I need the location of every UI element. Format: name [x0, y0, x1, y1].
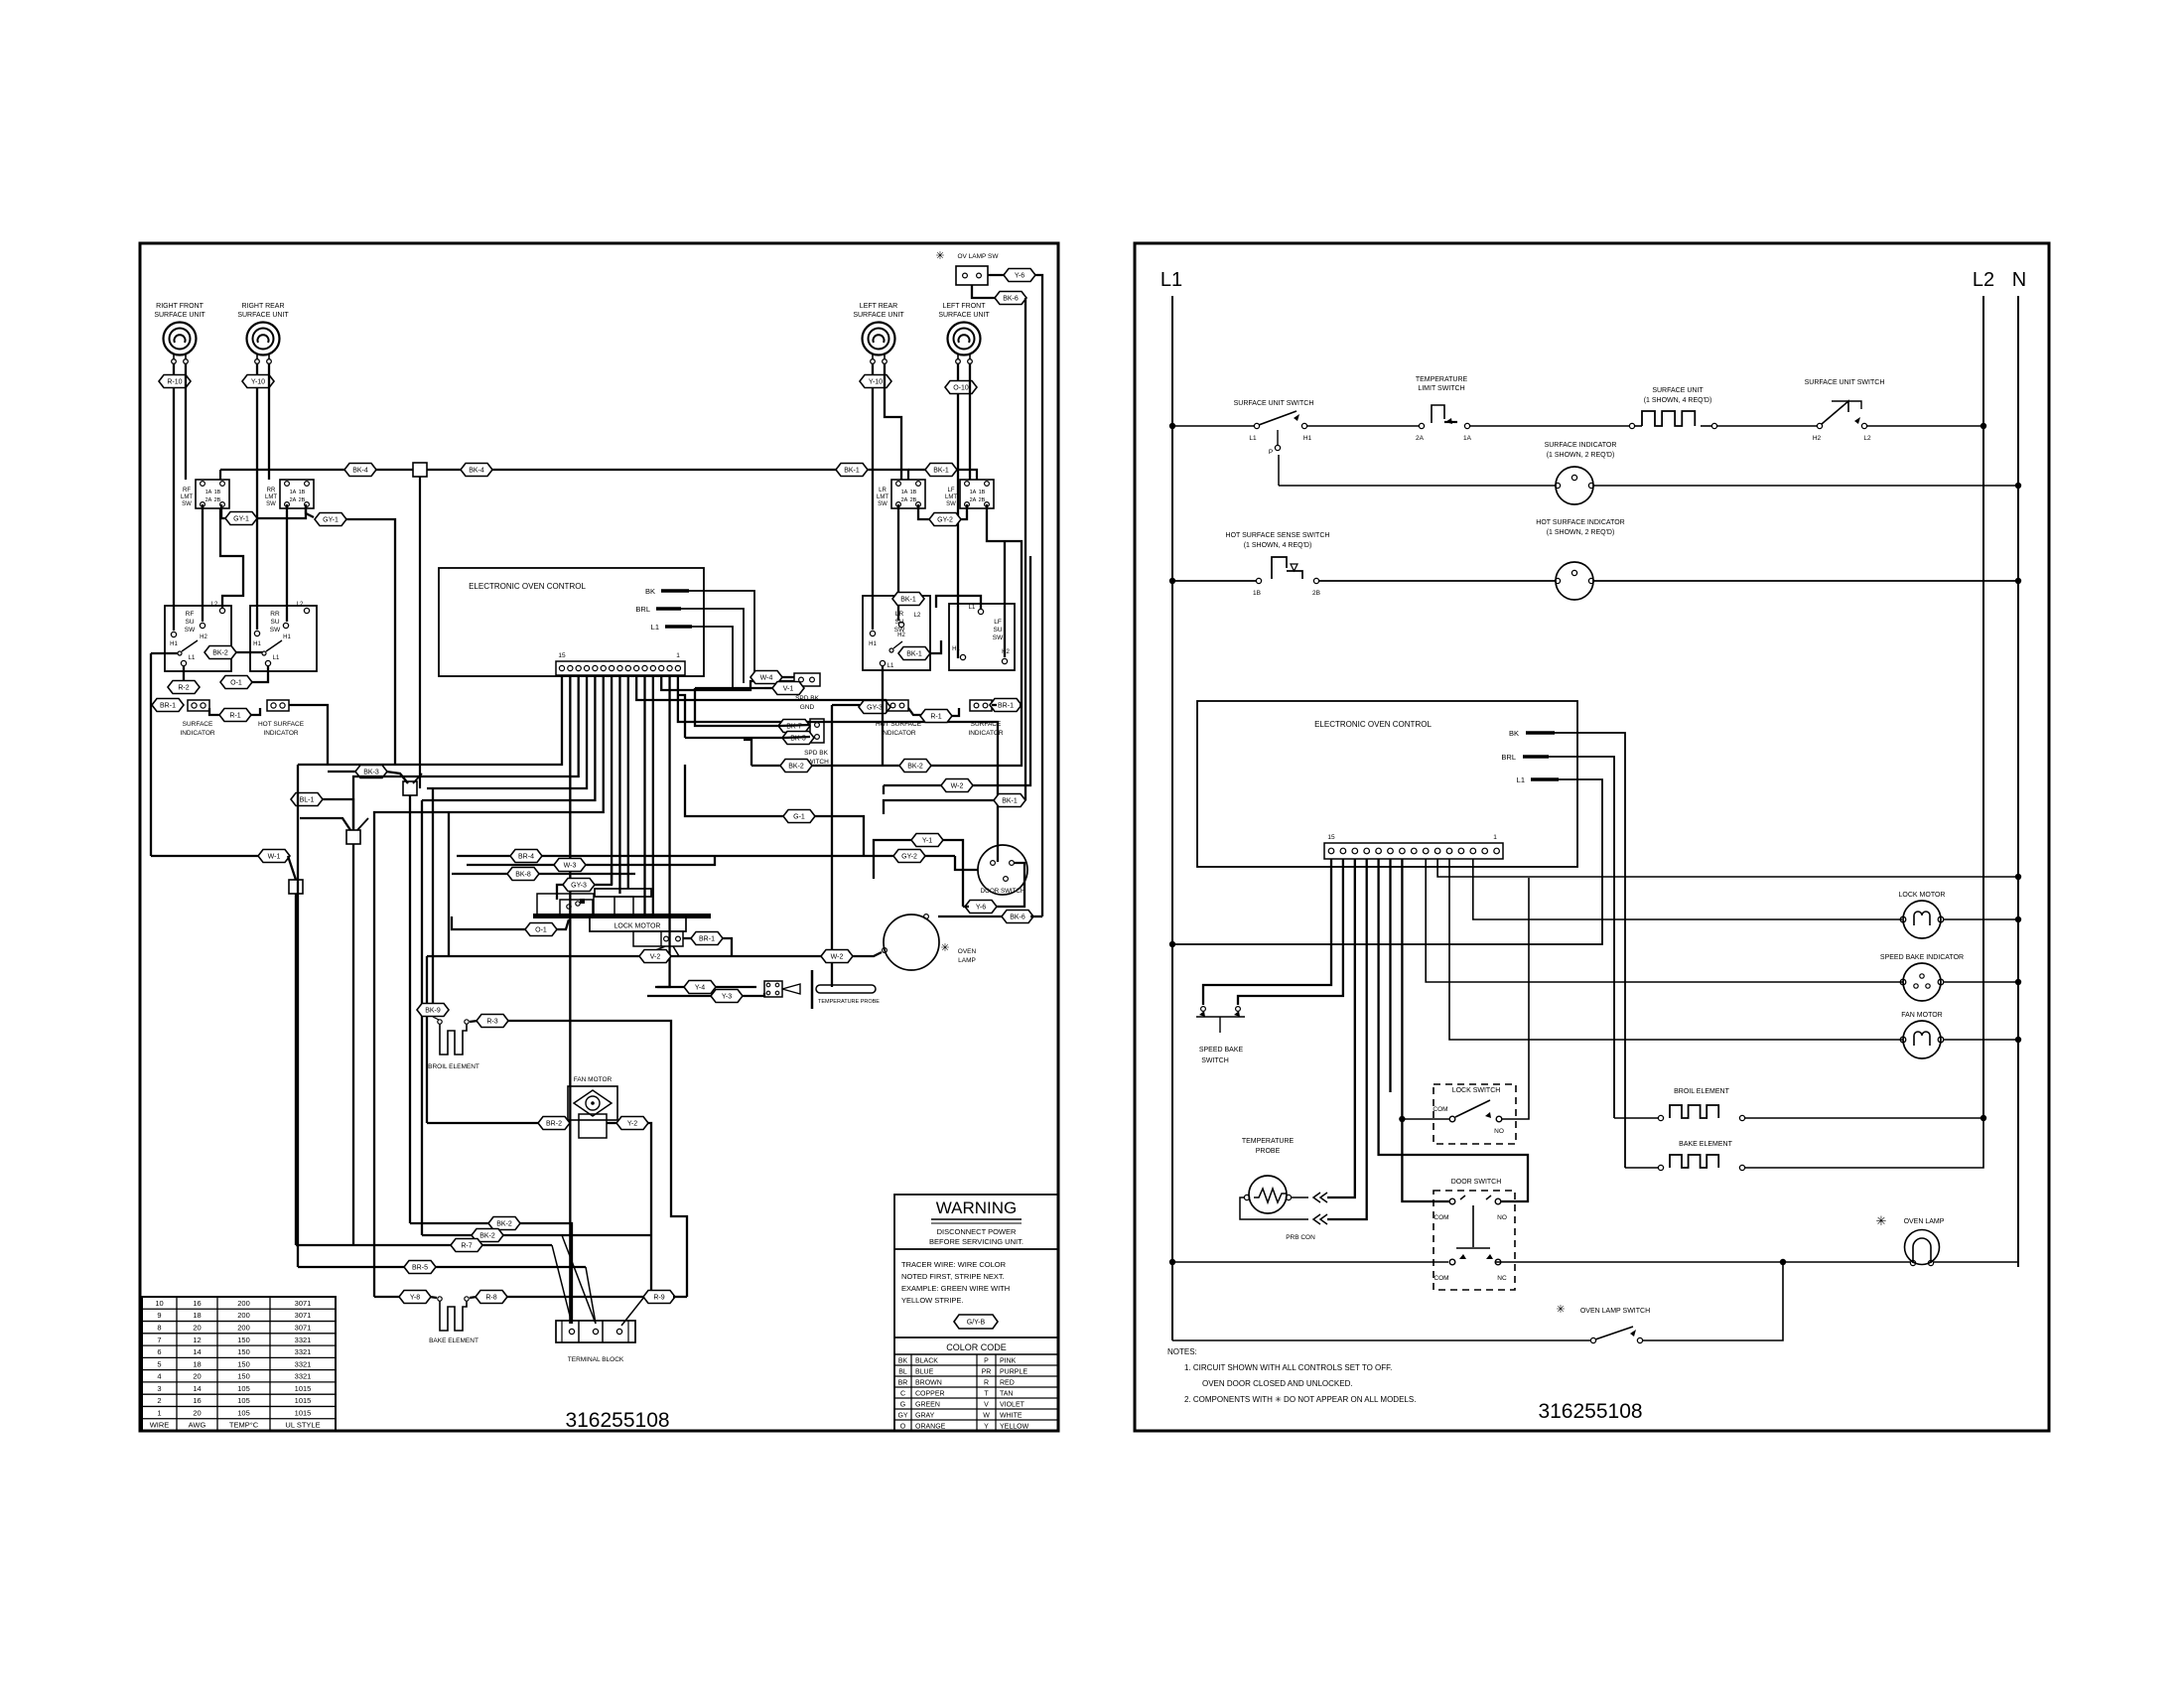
- svg-text:COM: COM: [1433, 1214, 1448, 1221]
- svg-text:BK-3: BK-3: [363, 770, 379, 776]
- wire LF H2 feed: [1004, 541, 1006, 657]
- door switch right: [1433, 1191, 1515, 1290]
- svg-text:H2: H2: [1002, 649, 1010, 655]
- svg-text:105: 105: [237, 1384, 250, 1393]
- wires BK BRL L1 to right: [689, 591, 754, 675]
- svg-text:WIRE: WIRE: [150, 1421, 170, 1430]
- svg-text:YELLOW STRIPE.: YELLOW STRIPE.: [901, 1296, 964, 1305]
- svg-text:INDICATOR: INDICATOR: [968, 730, 1003, 737]
- svg-text:SU: SU: [185, 619, 194, 626]
- temperature probe: [684, 981, 716, 994]
- svg-text:2A: 2A: [1416, 435, 1425, 442]
- svg-text:SPEED BAKE INDICATOR: SPEED BAKE INDICATOR: [1880, 954, 1964, 961]
- svg-text:1: 1: [157, 1408, 161, 1417]
- svg-text:BLUE: BLUE: [915, 1368, 934, 1375]
- svg-text:G/Y-B: G/Y-B: [967, 1320, 986, 1327]
- svg-text:R-1: R-1: [930, 714, 941, 721]
- svg-text:200: 200: [237, 1323, 250, 1332]
- wire pin5 down to bar: [643, 675, 645, 915]
- svg-text:1A: 1A: [205, 490, 212, 495]
- svg-text:BK-6: BK-6: [1010, 915, 1025, 921]
- svg-text:RIGHT FRONT: RIGHT FRONT: [156, 303, 204, 310]
- lock motor small box: [633, 931, 683, 946]
- svg-text:H2: H2: [200, 634, 207, 640]
- svg-text:BK-1: BK-1: [900, 597, 916, 604]
- svg-text:LEFT FRONT: LEFT FRONT: [942, 303, 986, 310]
- wire R-1 right: [908, 708, 921, 715]
- lock small box diagonals: [641, 946, 665, 956]
- svg-text:RR: RR: [270, 611, 280, 618]
- svg-text:20: 20: [193, 1372, 201, 1381]
- svg-text:TEMPERATURE: TEMPERATURE: [1416, 376, 1468, 383]
- svg-text:1B: 1B: [979, 490, 986, 495]
- svg-text:1A: 1A: [970, 490, 977, 495]
- electronic oven control box: [439, 568, 704, 676]
- svg-text:O-10: O-10: [953, 385, 969, 392]
- svg-text:1B: 1B: [910, 490, 917, 495]
- svg-text:SW: SW: [182, 501, 192, 507]
- svg-text:BK-4: BK-4: [469, 468, 484, 475]
- svg-text:P: P: [1269, 449, 1273, 456]
- svg-text:2A: 2A: [205, 497, 212, 503]
- svg-text:BL: BL: [898, 1368, 907, 1375]
- svg-text:BR-1: BR-1: [699, 936, 715, 943]
- svg-text:BK-2: BK-2: [496, 1221, 512, 1228]
- wire LF LMT to right riser: [987, 504, 1022, 556]
- wire pin15 left to x300: [298, 675, 562, 765]
- svg-text:2. COMPONENTS WITH ✳ DO NO: 2. COMPONENTS WITH ✳ DO NOT APPEAR ON AL…: [1184, 1395, 1416, 1404]
- svg-text:GY: GY: [897, 1412, 907, 1419]
- svg-text:✳: ✳: [940, 942, 949, 954]
- svg-text:O-1: O-1: [230, 680, 242, 687]
- ovals above lock motor: [510, 850, 542, 863]
- svg-text:BK-1: BK-1: [906, 651, 922, 658]
- svg-text:2B: 2B: [1312, 590, 1320, 597]
- svg-text:3321: 3321: [295, 1347, 312, 1356]
- svg-text:316255108: 316255108: [1538, 1400, 1642, 1423]
- svg-text:BLACK: BLACK: [915, 1357, 938, 1364]
- svg-text:LR: LR: [879, 488, 887, 493]
- svg-text:VIOLET: VIOLET: [1000, 1401, 1025, 1408]
- wire LB coil right down to LR LMT SW: [885, 363, 901, 480]
- left panel border: [140, 243, 1058, 1431]
- svg-text:TEMP°C: TEMP°C: [229, 1421, 259, 1430]
- svg-text:SW: SW: [185, 627, 196, 633]
- wire ov lamp sw to right: [988, 274, 1005, 276]
- wire BK row 2: [994, 794, 1025, 807]
- svg-text:Y-1: Y-1: [922, 838, 932, 845]
- svg-text:HOT SURFACE: HOT SURFACE: [258, 721, 305, 728]
- wire table: [142, 1297, 336, 1431]
- svg-text:3321: 3321: [295, 1336, 312, 1344]
- svg-text:V-1: V-1: [783, 686, 794, 693]
- switch box LR SU SW: [863, 596, 930, 670]
- wire LF coil down: [957, 363, 959, 658]
- svg-text:DOOR SWITCH: DOOR SWITCH: [981, 888, 1025, 895]
- svg-text:1: 1: [1493, 834, 1497, 841]
- connector strip right: [1324, 843, 1503, 859]
- svg-text:BK-6: BK-6: [1003, 296, 1019, 303]
- svg-text:2B: 2B: [299, 497, 306, 503]
- svg-text:TEMPERATURE: TEMPERATURE: [1242, 1138, 1295, 1145]
- svg-text:L2: L2: [914, 613, 921, 619]
- svg-text:12: 12: [193, 1336, 201, 1344]
- wire pin3 right row 695: [661, 675, 794, 690]
- svg-text:R-8: R-8: [485, 1295, 496, 1302]
- svg-text:V: V: [984, 1401, 989, 1408]
- svg-text:BK-1: BK-1: [844, 468, 860, 475]
- wire bottom row 3: [353, 1244, 552, 1246]
- lock switch: [1433, 1084, 1516, 1144]
- svg-text:BK-2: BK-2: [788, 764, 804, 771]
- wire GY-1 under RF/RR lmt sw: [221, 504, 226, 518]
- svg-text:BK-8: BK-8: [515, 872, 531, 879]
- switch box RF SU SW: [165, 606, 231, 671]
- wire BK-3 row: [328, 771, 356, 773]
- svg-text:(1 SHOWN, 2 REQ'D): (1 SHOWN, 2 REQ'D): [1547, 452, 1615, 459]
- terminal block: [556, 1321, 635, 1342]
- svg-text:GY-2: GY-2: [937, 517, 953, 524]
- wire L1 terminals down: [183, 666, 185, 681]
- wire door switch row: [695, 855, 894, 857]
- right panel border: [1135, 243, 2049, 1431]
- svg-text:2B: 2B: [979, 497, 986, 503]
- svg-text:OVEN DOOR CLOSED AND UNLOCKED.: OVEN DOOR CLOSED AND UNLOCKED.: [1202, 1379, 1353, 1388]
- electronic oven control box right: [1197, 701, 1577, 867]
- svg-text:200: 200: [237, 1311, 250, 1320]
- svg-text:INDICATOR: INDICATOR: [881, 730, 915, 737]
- svg-text:BR-5: BR-5: [412, 1265, 428, 1272]
- svg-text:R-1: R-1: [229, 713, 240, 720]
- svg-text:3: 3: [157, 1384, 161, 1393]
- svg-text:LMT: LMT: [265, 494, 277, 500]
- junction squares mid: [403, 781, 417, 795]
- wire from hot surface indicator right: [289, 705, 328, 765]
- svg-text:H1: H1: [869, 641, 877, 647]
- svg-text:✳: ✳: [935, 250, 944, 262]
- wire pin1 right row 727 to door: [678, 675, 998, 862]
- svg-text:LMT: LMT: [945, 494, 957, 500]
- svg-text:SURFACE UNIT: SURFACE UNIT: [938, 312, 990, 319]
- svg-text:BK-1: BK-1: [933, 468, 949, 475]
- svg-text:RF: RF: [183, 488, 191, 493]
- oval under RR lmt sw right: [306, 504, 314, 517]
- svg-text:WARNING: WARNING: [936, 1198, 1018, 1217]
- svg-text:GY-2: GY-2: [901, 854, 917, 861]
- svg-text:L1: L1: [651, 623, 659, 632]
- wire pin9 down to lock motor: [611, 675, 613, 885]
- wire BK-2 row right: [751, 765, 781, 767]
- svg-text:BK: BK: [898, 1357, 908, 1364]
- svg-text:(1 SHOWN, 4 REQ'D): (1 SHOWN, 4 REQ'D): [1644, 397, 1712, 404]
- svg-text:COPPER: COPPER: [915, 1390, 945, 1397]
- wire GY-2 under LR/LF lmt sw: [918, 504, 930, 519]
- wire bus continues right: [427, 470, 908, 480]
- svg-text:FAN MOTOR: FAN MOTOR: [1901, 1012, 1942, 1019]
- svg-text:20: 20: [193, 1323, 201, 1332]
- oval R-9 right: [643, 1291, 675, 1304]
- svg-text:✳: ✳: [1876, 1213, 1887, 1228]
- wire pin13 left row 782: [353, 675, 579, 830]
- svg-text:FAN MOTOR: FAN MOTOR: [574, 1076, 613, 1083]
- svg-text:3071: 3071: [295, 1311, 312, 1320]
- wire R-1 between indicators: [209, 708, 220, 715]
- svg-text:DISCONNECT POWER: DISCONNECT POWER: [937, 1227, 1017, 1236]
- wires under right su sw: [951, 708, 959, 716]
- svg-text:Y: Y: [984, 1423, 989, 1430]
- warning box: [894, 1195, 1058, 1431]
- svg-text:H1: H1: [170, 641, 178, 647]
- wire RR coil right to RR LMT SW: [268, 363, 270, 480]
- svg-text:SW: SW: [993, 634, 1004, 641]
- svg-text:Y-10: Y-10: [251, 379, 265, 386]
- svg-text:14: 14: [193, 1384, 201, 1393]
- limit switch LR LMT SW: [891, 480, 925, 508]
- wire RF coil right to RF LMT SW: [185, 363, 187, 480]
- svg-text:BK: BK: [1509, 729, 1519, 738]
- limit switch RF LMT SW: [196, 480, 229, 508]
- svg-text:15: 15: [1327, 834, 1335, 841]
- svg-text:L2: L2: [1863, 435, 1871, 442]
- svg-text:1: 1: [676, 652, 680, 659]
- svg-text:BR-1: BR-1: [160, 703, 176, 710]
- svg-text:H2: H2: [1813, 435, 1822, 442]
- wire BL-1 row: [291, 798, 293, 800]
- svg-text:R-9: R-9: [653, 1295, 664, 1302]
- svg-text:(1 SHOWN, 2 REQ'D): (1 SHOWN, 2 REQ'D): [1547, 529, 1615, 536]
- svg-text:LAMP: LAMP: [958, 957, 976, 964]
- wire pin7 down to plate: [627, 675, 629, 889]
- svg-text:BL-1: BL-1: [300, 797, 315, 804]
- svg-text:L1: L1: [273, 655, 280, 661]
- risers from stubs: [1555, 733, 1625, 1168]
- svg-text:SURFACE INDICATOR: SURFACE INDICATOR: [1545, 442, 1617, 449]
- svg-text:T: T: [984, 1390, 989, 1397]
- svg-text:PR: PR: [982, 1368, 992, 1375]
- switch box LF SU SW: [949, 604, 1015, 670]
- svg-text:W-4: W-4: [760, 675, 773, 682]
- wire LF coil right down to LF LMT SW: [969, 363, 971, 480]
- svg-text:BK-2: BK-2: [907, 764, 923, 771]
- switch box RR SU SW: [250, 606, 317, 671]
- svg-text:10: 10: [155, 1299, 163, 1308]
- svg-text:1015: 1015: [295, 1384, 312, 1393]
- svg-text:2A: 2A: [290, 497, 297, 503]
- svg-text:W-3: W-3: [564, 863, 577, 870]
- wire pin11 left row 806: [422, 675, 595, 800]
- wire left rail to W-1 row: [151, 855, 260, 857]
- wire to right switch: [1717, 425, 1818, 427]
- svg-text:G: G: [900, 1401, 905, 1408]
- svg-text:SURFACE: SURFACE: [971, 721, 1002, 728]
- svg-text:NO: NO: [1494, 1128, 1504, 1135]
- svg-text:PRB CON: PRB CON: [1286, 1234, 1315, 1241]
- svg-text:105: 105: [237, 1408, 250, 1417]
- svg-text:L1: L1: [1249, 435, 1257, 442]
- svg-text:SW: SW: [266, 501, 276, 507]
- svg-text:RED: RED: [1000, 1379, 1015, 1386]
- svg-text:R-7: R-7: [461, 1243, 472, 1250]
- indicator SURFACE right: [970, 700, 992, 711]
- svg-text:ELECTRONIC OVEN CONTROL: ELECTRONIC OVEN CONTROL: [1314, 720, 1432, 729]
- svg-text:SURFACE: SURFACE: [183, 721, 213, 728]
- svg-text:OVEN LAMP: OVEN LAMP: [1904, 1218, 1945, 1225]
- svg-text:LEFT REAR: LEFT REAR: [860, 303, 897, 310]
- svg-text:L1: L1: [1160, 269, 1182, 291]
- svg-text:SURFACE UNIT SWITCH: SURFACE UNIT SWITCH: [1234, 400, 1314, 407]
- connector strip 15 pins: [556, 661, 685, 675]
- svg-text:5: 5: [157, 1359, 161, 1368]
- svg-text:RF: RF: [186, 611, 195, 618]
- svg-text:3071: 3071: [295, 1323, 312, 1332]
- wire pin14 down to terminal block 1: [569, 675, 571, 1324]
- svg-text:BK-2: BK-2: [212, 650, 228, 657]
- broil element: [417, 1004, 449, 1017]
- surface indicator lamp: [1556, 467, 1593, 504]
- svg-text:P: P: [984, 1357, 989, 1364]
- svg-text:DOOR SWITCH: DOOR SWITCH: [1451, 1179, 1502, 1186]
- row1 rung: [1169, 423, 1175, 429]
- svg-text:W-2: W-2: [831, 954, 844, 961]
- L1 junction dot: [1169, 941, 1175, 947]
- svg-text:TAN: TAN: [1000, 1390, 1013, 1397]
- svg-text:ORANGE: ORANGE: [915, 1423, 946, 1430]
- svg-text:200: 200: [237, 1299, 250, 1308]
- svg-text:YELLOW: YELLOW: [1000, 1423, 1029, 1430]
- svg-text:BK-4: BK-4: [352, 468, 368, 475]
- limit switch LF LMT SW: [960, 480, 994, 508]
- svg-text:SU: SU: [993, 627, 1002, 633]
- N bus: [2017, 296, 2019, 1267]
- wires oven lamp right: [938, 915, 1005, 917]
- wire BK bus: [219, 470, 221, 480]
- wire vertical x452 to oven lamp row: [448, 812, 450, 956]
- svg-text:LIMIT SWITCH: LIMIT SWITCH: [1418, 385, 1464, 392]
- svg-text:18: 18: [193, 1311, 201, 1320]
- svg-text:PURPLE: PURPLE: [1000, 1368, 1027, 1375]
- svg-text:1B: 1B: [214, 490, 221, 495]
- spd bk switch: [810, 719, 824, 743]
- wire Y-1 row: [911, 834, 943, 847]
- wire BK-1 in LR box: [889, 648, 893, 652]
- wire bus junction down: [419, 477, 421, 788]
- svg-text:UL STYLE: UL STYLE: [285, 1421, 320, 1430]
- wire to temp limit switch: [1307, 425, 1419, 427]
- svg-text:SURFACE UNIT: SURFACE UNIT: [853, 312, 904, 319]
- wires at LF SU SW top: [936, 596, 981, 609]
- svg-text:TERMINAL BLOCK: TERMINAL BLOCK: [568, 1356, 624, 1363]
- svg-text:HOT SURFACE INDICATOR: HOT SURFACE INDICATOR: [1536, 519, 1624, 526]
- svg-text:W: W: [983, 1412, 990, 1419]
- svg-text:ELECTRONIC OVEN CONTROL: ELECTRONIC OVEN CONTROL: [469, 582, 586, 591]
- svg-text:TEMPERATURE PROBE: TEMPERATURE PROBE: [818, 999, 880, 1005]
- svg-text:BROIL ELEMENT: BROIL ELEMENT: [1674, 1088, 1729, 1095]
- svg-text:GY-3: GY-3: [867, 705, 883, 712]
- svg-text:1015: 1015: [295, 1408, 312, 1417]
- oval BR-1 left: [152, 699, 184, 712]
- svg-text:O-1: O-1: [535, 927, 547, 934]
- svg-text:OV LAMP SW: OV LAMP SW: [957, 253, 999, 260]
- P branch down: [1278, 455, 1280, 486]
- svg-text:SW: SW: [946, 501, 956, 507]
- svg-text:INDICATOR: INDICATOR: [263, 730, 298, 737]
- wire left rail down from P row: [150, 653, 152, 856]
- svg-text:BK-2: BK-2: [479, 1233, 495, 1240]
- svg-text:INDICATOR: INDICATOR: [180, 730, 214, 737]
- svg-text:18: 18: [193, 1359, 201, 1368]
- svg-text:GY-1: GY-1: [323, 517, 339, 524]
- svg-text:LOCK MOTOR: LOCK MOTOR: [1899, 892, 1946, 899]
- wire RR coil to RR SU SW H1: [256, 363, 258, 630]
- wire bottom row 4: [298, 1266, 586, 1268]
- svg-text:W-1: W-1: [268, 854, 281, 861]
- svg-text:L2: L2: [297, 602, 304, 608]
- svg-text:AWG: AWG: [189, 1421, 206, 1430]
- L1 bus: [1171, 296, 1173, 1340]
- svg-text:OVEN LAMP SWITCH: OVEN LAMP SWITCH: [1580, 1308, 1650, 1315]
- door switch: [978, 845, 1027, 895]
- wire pin4 down to bar: [652, 675, 654, 915]
- svg-text:1A: 1A: [1463, 435, 1472, 442]
- indicator SURFACE INDICATOR: [188, 700, 209, 711]
- svg-text:R-10: R-10: [167, 379, 182, 386]
- svg-text:Y-8: Y-8: [410, 1295, 420, 1302]
- svg-text:BAKE ELEMENT: BAKE ELEMENT: [1679, 1141, 1732, 1148]
- wire G-1 row: [783, 810, 815, 823]
- svg-text:15: 15: [558, 652, 566, 659]
- svg-text:Y-2: Y-2: [627, 1121, 637, 1128]
- svg-text:GRAY: GRAY: [915, 1412, 935, 1419]
- svg-text:HOT SURFACE SENSE SWITCH: HOT SURFACE SENSE SWITCH: [1226, 532, 1330, 539]
- svg-text:BRL: BRL: [1501, 753, 1516, 762]
- svg-text:L1: L1: [189, 655, 196, 661]
- svg-text:3321: 3321: [295, 1372, 312, 1381]
- pin wires right panel: [1203, 859, 1331, 1005]
- svg-text:150: 150: [237, 1347, 250, 1356]
- svg-text:SURFACE UNIT: SURFACE UNIT: [154, 312, 205, 319]
- wire pin6 right row 705: [636, 675, 887, 700]
- svg-text:LOCK MOTOR: LOCK MOTOR: [614, 923, 661, 930]
- svg-text:NC: NC: [1497, 1275, 1507, 1282]
- svg-text:14: 14: [193, 1347, 201, 1356]
- wire left rail junction down: [295, 894, 297, 1245]
- svg-text:BR-1: BR-1: [998, 703, 1014, 710]
- wire W-2 row: [884, 784, 942, 786]
- wire pin10 left row 818: [374, 675, 604, 1297]
- svg-text:2B: 2B: [910, 497, 917, 503]
- svg-text:GY-3: GY-3: [571, 883, 587, 890]
- wire door switch right terminal down: [993, 863, 1024, 907]
- wire ov lamp sw lower: [972, 285, 996, 298]
- svg-text:SPD BK: SPD BK: [804, 750, 829, 757]
- svg-text:16: 16: [193, 1299, 201, 1308]
- svg-text:BR: BR: [898, 1379, 908, 1386]
- probe lower wire: [1240, 1197, 1308, 1219]
- svg-text:GND: GND: [800, 704, 815, 711]
- L2 bus: [1982, 296, 1984, 1118]
- svg-text:C: C: [900, 1390, 905, 1397]
- svg-text:L2: L2: [1973, 269, 1994, 291]
- svg-text:✳: ✳: [1556, 1304, 1565, 1316]
- wire diagonal to TB pin3: [621, 1297, 644, 1326]
- svg-text:RIGHT REAR: RIGHT REAR: [241, 303, 284, 310]
- svg-text:NO: NO: [1497, 1214, 1507, 1221]
- svg-text:SW: SW: [878, 501, 887, 507]
- svg-text:2B: 2B: [214, 497, 221, 503]
- svg-text:BROWN: BROWN: [915, 1379, 942, 1386]
- lock motor assembly: [533, 914, 711, 918]
- svg-text:O: O: [900, 1423, 906, 1430]
